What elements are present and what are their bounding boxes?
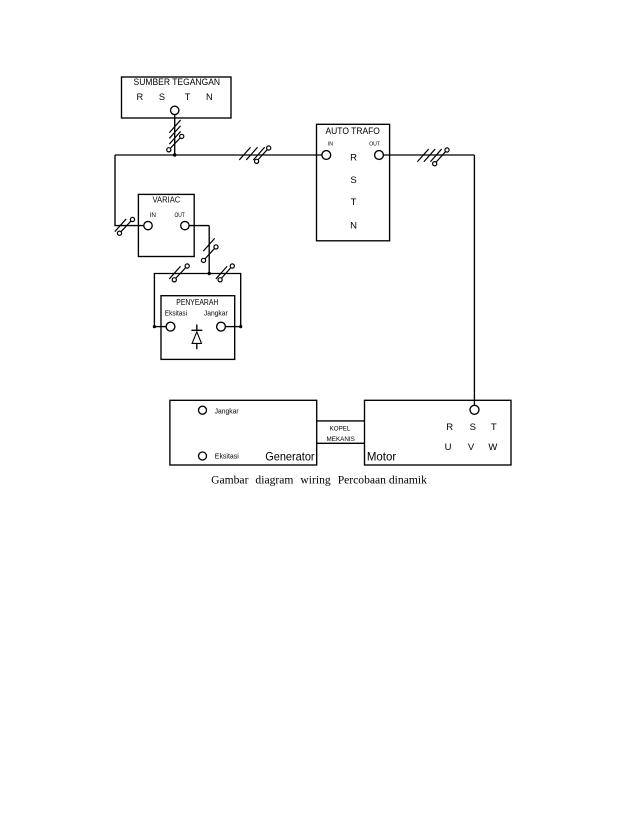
svg-text:Gambar diagram wiring Percobaa: Gambar diagram wiring Percobaan dinamik: [211, 474, 427, 487]
svg-text:T: T: [185, 92, 191, 102]
kopel mekanis coupling: [317, 421, 365, 443]
svg-text:N: N: [206, 92, 213, 102]
main bus wire: [115, 154, 322, 156]
rectifier bus wire: [154, 273, 240, 275]
label VARIAC: [153, 196, 181, 205]
svg-text:Eksitasi: Eksitasi: [165, 309, 188, 318]
wire trafo out to motor: [383, 155, 474, 405]
svg-text:T: T: [351, 197, 357, 208]
terminal label T: [185, 92, 191, 102]
label KOPEL: [330, 426, 351, 433]
label T trafo: [351, 197, 357, 208]
svg-text:OUT: OUT: [369, 142, 380, 148]
svg-text:Jangkar: Jangkar: [215, 407, 240, 415]
svg-text:R: R: [350, 152, 357, 163]
rectifier box PENYEARAH: [161, 296, 235, 360]
variac box: [138, 194, 194, 256]
svg-text:IN: IN: [150, 213, 156, 219]
wire to eksitasi: [154, 273, 166, 327]
motor supply terminal: [470, 405, 479, 414]
power source box SUMBER TEGANGAN: [122, 77, 232, 118]
svg-text:R: R: [446, 422, 453, 433]
generator box: [170, 400, 317, 465]
auto trafo box: [317, 124, 390, 241]
label S motor: [470, 422, 476, 433]
svg-text:R: R: [136, 92, 143, 102]
switch S7 blade: [433, 148, 450, 166]
switch S4 blade: [201, 245, 218, 263]
label AUTO TRAFO: [326, 126, 380, 137]
junction bus/source: [173, 153, 176, 156]
svg-text:MEKANIS: MEKANIS: [327, 436, 355, 443]
diode D1: [191, 325, 202, 350]
junction jangkar corner: [239, 325, 242, 328]
label Motor: [367, 450, 396, 464]
generator jangkar terminal: [199, 406, 207, 414]
svg-text:S: S: [470, 422, 476, 433]
svg-text:KOPEL: KOPEL: [330, 426, 351, 433]
terminal label N: [206, 92, 213, 102]
label Jangkar generator: [215, 407, 240, 415]
label SUMBER TEGANGAN: [134, 77, 221, 88]
svg-text:T: T: [491, 422, 497, 433]
terminal label S: [159, 92, 165, 102]
variac OUT terminal: [181, 221, 189, 229]
motor box: [365, 400, 512, 465]
label OUT variac: [174, 213, 185, 219]
label W motor: [488, 442, 497, 453]
label U motor: [445, 442, 452, 453]
trafo OUT terminal: [375, 151, 384, 160]
switch S3 blade: [117, 217, 134, 235]
wire to jangkar: [225, 273, 240, 327]
wire variac out: [189, 226, 209, 274]
svg-text:SUMBER TEGANGAN: SUMBER TEGANGAN: [134, 77, 221, 88]
switch S6 slash: [216, 266, 227, 279]
svg-text:U: U: [445, 442, 452, 453]
penyearah eksitasi terminal: [166, 322, 175, 331]
trafo IN terminal: [322, 151, 331, 160]
svg-text:OUT: OUT: [174, 213, 185, 219]
switch S5 blade: [172, 264, 189, 282]
source output terminal: [171, 106, 179, 114]
penyearah jangkar terminal: [217, 322, 226, 331]
label Jangkar penyearah: [204, 309, 228, 318]
svg-text:V: V: [468, 442, 475, 453]
label Eksitasi: [165, 309, 188, 318]
label OUT trafo: [369, 142, 380, 148]
svg-text:N: N: [350, 221, 357, 232]
svg-text:Jangkar: Jangkar: [204, 309, 228, 318]
switch S3 slash: [115, 219, 126, 232]
svg-text:S: S: [159, 92, 165, 102]
svg-text:PENYEARAH: PENYEARAH: [176, 297, 218, 307]
terminal label R: [136, 92, 143, 102]
svg-text:Eksitasi: Eksitasi: [215, 453, 239, 461]
label T motor: [491, 422, 497, 433]
wire source to bus: [174, 115, 176, 155]
label N trafo: [350, 221, 357, 232]
label Generator: [265, 449, 314, 463]
svg-text:VARIAC: VARIAC: [153, 196, 181, 205]
svg-text:AUTO TRAFO: AUTO TRAFO: [326, 126, 380, 137]
svg-text:Generator: Generator: [265, 449, 314, 463]
switch S5 slash: [169, 266, 180, 279]
svg-text:S: S: [350, 175, 356, 186]
svg-text:Motor: Motor: [367, 450, 396, 464]
switch S2 slashes: [239, 147, 264, 160]
switch S7 slashes: [417, 149, 441, 162]
label R motor: [446, 422, 453, 433]
junction eksitasi corner: [153, 325, 156, 328]
svg-text:IN: IN: [328, 142, 333, 148]
caption Gambar diagram wiring Percobaan dinamik: [211, 474, 427, 487]
label IN variac: [150, 213, 156, 219]
switch S1 blade: [167, 134, 184, 152]
wire bus down to variac: [114, 155, 143, 226]
junction rectifier bus: [208, 272, 211, 275]
svg-text:W: W: [488, 442, 497, 453]
label S trafo: [350, 175, 356, 186]
variac IN terminal: [144, 221, 152, 229]
switch S6 blade: [218, 264, 234, 282]
switch S4 slash: [203, 238, 214, 251]
label PENYEARAH: [176, 297, 218, 307]
switch S1 slashes: [169, 120, 180, 144]
label V motor: [468, 442, 475, 453]
generator eksitasi terminal: [199, 452, 207, 460]
label IN trafo: [328, 142, 333, 148]
label Eksitasi generator: [215, 453, 239, 461]
label R trafo: [350, 152, 357, 163]
label MEKANIS: [327, 436, 355, 443]
switch S2 blade: [255, 146, 271, 164]
